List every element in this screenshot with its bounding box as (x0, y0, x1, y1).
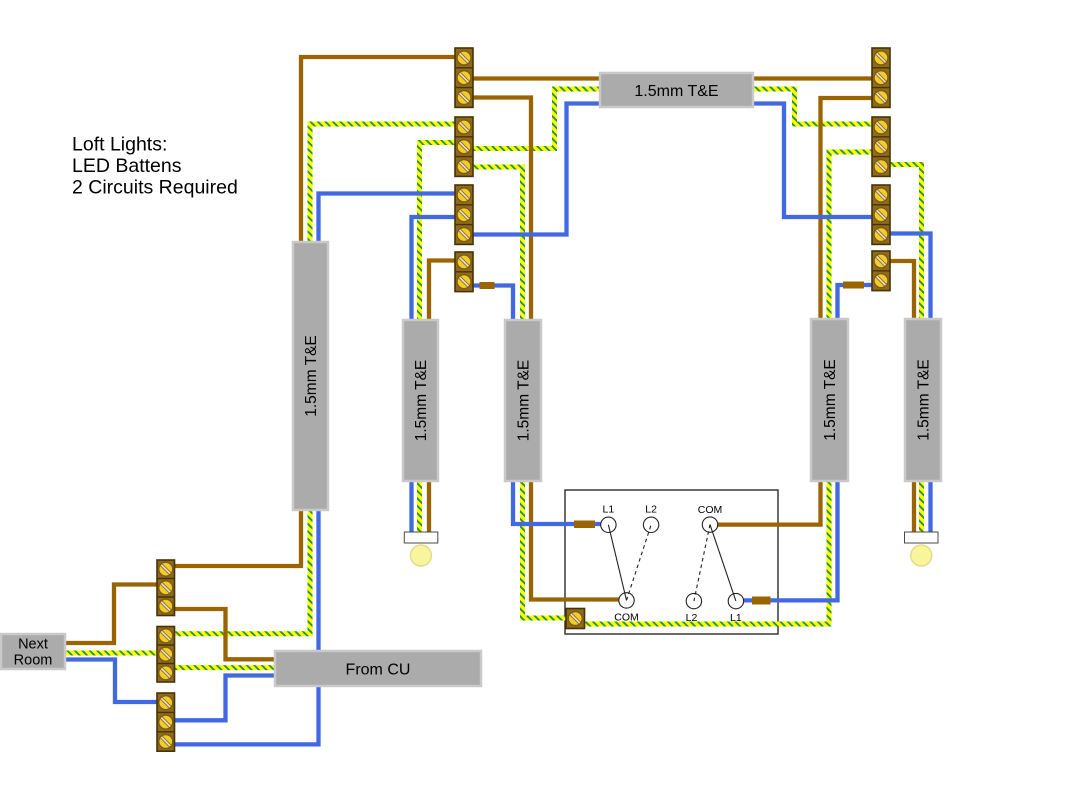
wire earth S2R mid to cable4 (829, 152, 874, 326)
svg-text:L1: L1 (603, 504, 615, 516)
svg-text:1.5mm T&E: 1.5mm T&E (303, 335, 320, 417)
switch box SW1 (2-gang 2-way) (565, 490, 778, 634)
wire blue S3R bot to cable5 (888, 234, 931, 327)
wire earth S2L mid to S2R top via top cable (470, 89, 874, 149)
svg-text:1.5mm T&E: 1.5mm T&E (916, 359, 933, 441)
svg-text:L2: L2 (645, 504, 657, 516)
wire brown cable3 to left COM (531, 476, 622, 600)
wire earth cable2 to S2L mid (420, 143, 458, 327)
wire brown Next Room to SA mid (60, 585, 159, 644)
svg-text:COM: COM (614, 612, 639, 624)
switch lever left (solid to L1) (608, 525, 626, 601)
switch lever right alternate (dashed to L2) (694, 525, 710, 602)
wire earth S2R bot to cable5 (888, 165, 922, 327)
wire earth CU riser to terminal S2L top (310, 124, 457, 252)
svg-text:1.5mm T&E: 1.5mm T&E (822, 359, 839, 441)
wire earth SB bot to From CU (172, 665, 280, 670)
cable label cable5 1.5mm T&E (905, 319, 941, 481)
wire blue From CU to SC mid (172, 676, 280, 721)
switch contact left L1 (601, 517, 616, 532)
wire earth cable3 to switch earth terminal (523, 476, 573, 618)
wire blue cable4 to right L1 (740, 476, 838, 600)
terminal block S4L (455, 252, 473, 292)
terminal block S1L (455, 48, 473, 107)
wire brown S1L bot to cable3 (470, 98, 531, 327)
cable label top 1.5mm T&E (600, 73, 753, 107)
wire blue S3L bot to S3R mid via top cable (470, 104, 874, 235)
svg-text:COM: COM (698, 504, 723, 516)
wire earth cable5 to lamp LP2 (919, 476, 924, 538)
switch contact right L1 (728, 593, 743, 608)
label Next Room (1, 634, 65, 669)
wire blue cable2 to S3L mid (412, 217, 458, 326)
switch lever right (solid to L1) (710, 525, 736, 602)
wire brown S1L mid to S1R mid (470, 76, 874, 80)
svg-text:1.5mm T&E: 1.5mm T&E (413, 360, 430, 442)
cable label cable2 1.5mm T&E (403, 320, 438, 481)
cable label cable3 1.5mm T&E (505, 320, 541, 481)
lamp LP1 bulb (410, 545, 431, 566)
terminal block S2R (872, 117, 890, 176)
ferrule F4 at right L1 (752, 597, 771, 605)
switch contact left L2 (643, 517, 658, 532)
terminal block SC (157, 693, 175, 751)
wire earth CU riser to SB top (172, 505, 310, 634)
terminal block S1R (872, 48, 890, 107)
terminal block S4R (872, 251, 890, 291)
terminal block S2L (455, 117, 473, 176)
wire blue S4R bot to cable4 (838, 285, 875, 326)
switch contact right L2 (686, 593, 701, 608)
ferrule F3 at left L1 (574, 521, 595, 529)
cable label cable4 1.5mm T&E (811, 319, 848, 481)
switch contact right COM (702, 517, 717, 532)
svg-text:Room: Room (14, 653, 53, 669)
wire brown cable2 to S4L top (429, 261, 457, 327)
terminal block S3L (455, 185, 473, 244)
lamp LP2 bulb (911, 545, 932, 566)
label From CU (275, 651, 481, 686)
wire brown CU riser to S1L top (301, 57, 457, 252)
svg-text:From CU: From CU (346, 662, 411, 679)
switch lever left alternate (dashed to L2) (627, 525, 652, 601)
svg-text:LED Battens: LED Battens (72, 155, 182, 177)
terminal block SA (157, 560, 175, 616)
wire brown cable5 to lamp LP2 (912, 476, 916, 538)
wire blue CU riser to SC bot (172, 505, 319, 744)
wire blue Next Room to SC top (60, 660, 158, 703)
wire brown cable4 to right COM (714, 476, 821, 525)
terminal block switch earth (566, 609, 585, 629)
ferrule F1 on S4L switched live (480, 282, 495, 289)
wire blue cable3 to left L1 (513, 476, 604, 524)
svg-text:2 Circuits Required: 2 Circuits Required (72, 177, 238, 199)
wire earth Next Room to SB mid (60, 651, 158, 656)
wire blue S4L bot to cable3 (470, 286, 513, 327)
wire earth cable2 to lamp LP1 (417, 476, 422, 538)
svg-text:L1: L1 (730, 612, 742, 624)
terminal block SB (157, 627, 175, 683)
wire blue cable2 to lamp LP1 (409, 476, 413, 534)
svg-text:1.5mm T&E: 1.5mm T&E (516, 360, 533, 442)
ferrule F2 on S4R switched live (843, 282, 864, 289)
terminal block S3R (872, 185, 890, 244)
lamp LP1 batten cap (404, 532, 438, 543)
lamp LP2 batten cap (905, 532, 939, 543)
switch contact left COM (619, 593, 634, 608)
wire brown SA bot to From CU (172, 609, 280, 659)
cable label cable1 1.5mm T&E (293, 242, 328, 510)
wire earth S2L bot to cable3 (470, 167, 523, 326)
wire earth switch terminal to cable4 (582, 476, 829, 624)
wire blue CU riser to S3L top (319, 194, 458, 253)
svg-text:L2: L2 (686, 612, 698, 624)
wire brown S4R top to cable5 (888, 261, 914, 326)
wire brown S1R bot to cable4 (821, 98, 875, 326)
svg-text:1.5mm T&E: 1.5mm T&E (634, 83, 718, 100)
wire blue cable5 to lamp LP2 (928, 476, 932, 534)
svg-text:Next: Next (18, 637, 48, 653)
wire brown CU riser to SA top (172, 505, 301, 566)
wire brown cable2 to lamp LP1 (427, 476, 431, 538)
svg-text:Loft Lights:: Loft Lights: (72, 134, 167, 156)
